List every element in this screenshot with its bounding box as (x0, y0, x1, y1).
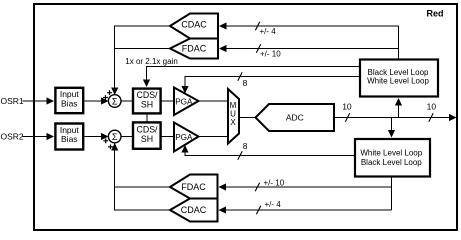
svg-text:+/- 4: +/- 4 (265, 200, 282, 209)
svg-text:CDAC: CDAC (181, 19, 207, 29)
svg-text:8: 8 (243, 141, 248, 151)
svg-text:8: 8 (243, 78, 248, 88)
svg-text:SH: SH (141, 134, 153, 144)
svg-text:PGA: PGA (175, 97, 193, 106)
svg-text:FDAC: FDAC (182, 43, 207, 53)
svg-text:Bias: Bias (61, 134, 78, 144)
svg-text:Bias: Bias (61, 99, 78, 109)
svg-text:White Level Loop: White Level Loop (367, 76, 429, 85)
svg-text:PGA: PGA (175, 133, 193, 142)
svg-text:ADC: ADC (286, 113, 304, 123)
svg-text:Red: Red (426, 9, 443, 19)
svg-text:Σ: Σ (112, 96, 118, 106)
svg-text:10: 10 (342, 102, 352, 112)
svg-text:OSR1: OSR1 (1, 96, 24, 106)
svg-text:10: 10 (427, 102, 437, 112)
svg-text:1x or 2.1x gain: 1x or 2.1x gain (125, 57, 177, 66)
svg-text:+/- 10: +/- 10 (264, 178, 285, 187)
svg-text:X: X (230, 118, 236, 127)
svg-text:FDAC: FDAC (181, 182, 206, 192)
svg-text:CDAC: CDAC (181, 205, 207, 215)
svg-text:+/- 4: +/- 4 (260, 27, 277, 36)
svg-text:OSR2: OSR2 (1, 132, 24, 142)
svg-text:Black Level Loop: Black Level Loop (361, 158, 422, 167)
svg-text:SH: SH (141, 100, 153, 110)
svg-text:+/- 10: +/- 10 (260, 50, 281, 59)
svg-text:Σ: Σ (112, 132, 118, 142)
svg-text:White Level Loop: White Level Loop (360, 149, 422, 158)
